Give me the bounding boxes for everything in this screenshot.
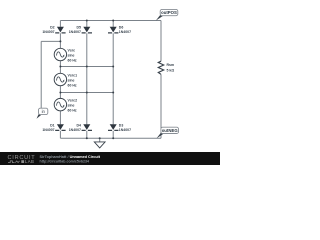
voltage source Vsrc [54,48,77,62]
svg-text:1N4007: 1N4007 [119,30,131,34]
svg-text:1N4007: 1N4007 [42,128,54,132]
svg-text:D4: D4 [77,123,82,127]
footer CircuitLab logo [8,155,36,164]
svg-text:1N4007: 1N4007 [69,30,81,34]
wire node A horizontal [60,66,113,68]
ground [94,142,105,148]
diode D6 [108,25,131,34]
node tag outPOS [156,9,178,20]
svg-text:SirTophamHatt / Unnamed Circui: SirTophamHatt / Unnamed Circuit [40,155,101,159]
junction bottom bus at leg3 [112,137,114,139]
junction node B at leg2 [86,92,88,94]
svg-text:D3: D3 [119,123,124,127]
junction node B at leg3 [112,92,114,94]
svg-text:outPOS: outPOS [161,10,177,15]
wire leg2 segments [86,21,88,139]
node tag in [37,108,48,119]
diode D2 [42,25,65,34]
junction node A at leg3 [112,66,114,68]
svg-text:1N4007: 1N4007 [119,128,131,132]
junction ground at bottom bus [99,137,101,139]
svg-text:D2: D2 [50,25,55,29]
svg-text:Vsrc: Vsrc [68,48,76,52]
wire top bus [60,20,161,22]
resistor Rsm [158,61,174,74]
wire input left rail [40,41,42,114]
wire bottom bus [60,137,161,139]
wire leg1 segments [59,21,61,139]
junction top bus at leg2 [86,20,88,22]
node tag outNEG [157,127,179,138]
wire ground stub [99,138,101,142]
svg-text:D1: D1 [50,123,55,127]
diode D3 [108,123,131,132]
svg-text:sine: sine [68,53,75,57]
svg-text:outNEG: outNEG [162,128,179,133]
svg-text:60 Hz: 60 Hz [68,58,77,62]
svg-text:60 Hz: 60 Hz [68,83,77,87]
svg-text:sine: sine [68,103,75,107]
wire leg3 segments [112,21,114,139]
junction bottom bus at leg2 [86,137,88,139]
svg-text:1N4007: 1N4007 [69,128,81,132]
svg-text:sine: sine [68,78,75,82]
wire node B horizontal [60,92,113,94]
diode D4 [69,123,92,132]
svg-text:D5: D5 [77,25,82,29]
wire right rail lower [160,74,162,138]
wire input horizontal [41,40,60,42]
svg-text:1N4007: 1N4007 [42,30,54,34]
diode D1 [42,123,65,132]
junction node A at leg2 [86,66,88,68]
svg-text:D6: D6 [119,25,124,29]
junction node in at leg1 [59,40,61,42]
wire right rail upper [160,21,162,62]
svg-text:http://circuitlab.com/c5vb234: http://circuitlab.com/c5vb234 [40,159,90,163]
svg-text:5 kΩ: 5 kΩ [167,68,175,72]
footer title text [40,155,101,164]
diode D5 [69,25,92,34]
svg-text:Vsrc1: Vsrc1 [68,73,78,77]
junction top bus at leg3 [112,20,114,22]
svg-text:Rsm: Rsm [167,63,175,67]
footer bar [0,152,220,165]
junction node A at leg1 [59,66,61,68]
svg-text:LAB: LAB [25,159,34,164]
voltage source Vsrc2 [54,98,77,112]
voltage source Vsrc1 [54,73,77,87]
svg-text:60 Hz: 60 Hz [68,108,77,112]
junction node B at leg1 [59,92,61,94]
svg-text:Vsrc2: Vsrc2 [68,98,78,102]
